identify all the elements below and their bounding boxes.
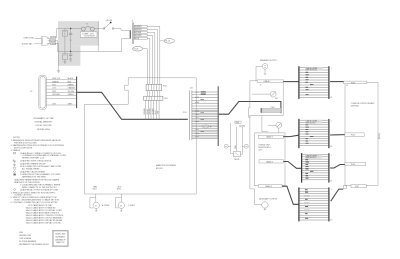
svg-text:ALL SIGNAL WIRES: ALL SIGNAL WIRES <box>22 168 40 171</box>
svg-text:BLUE: BLUE <box>155 110 157 114</box>
svg-text:GREEN: GREEN <box>68 94 75 96</box>
svg-text:REVISED 1984: REVISED 1984 <box>19 235 31 237</box>
svg-text:3. CABLES: 3. CABLES <box>11 149 21 152</box>
svg-text:B102: B102 <box>117 189 121 191</box>
svg-text:SLOW BLOW: SLOW BLOW <box>84 36 95 38</box>
svg-text:1: 1 <box>331 68 332 70</box>
svg-text:115/230 VAC: 115/230 VAC <box>22 43 34 46</box>
svg-text:BRN/WH: BRN/WH <box>144 108 146 114</box>
svg-text:(SEE NOTE 2): (SEE NOTE 2) <box>306 70 318 72</box>
svg-text:BROWN: BROWN <box>135 32 142 34</box>
svg-text:P104: P104 <box>351 82 355 84</box>
svg-text:BLU/WH: BLU/WH <box>152 108 154 114</box>
svg-text:INT: INT <box>275 98 278 100</box>
svg-text:(DISPLAY): (DISPLAY) <box>351 104 360 107</box>
svg-text:ORANGE: ORANGE <box>68 87 76 90</box>
svg-text:J2: J2 <box>346 85 348 87</box>
svg-text:BRN/YE: BRN/YE <box>147 109 149 115</box>
svg-text:GRN: GRN <box>158 111 160 114</box>
svg-text:LINE CORD: LINE CORD <box>24 38 35 40</box>
svg-text:CRT: CRT <box>259 149 262 151</box>
svg-text:J1: J1 <box>132 21 134 23</box>
svg-text:RESPECTIVE PART 1-14: RESPECTIVE PART 1-14 <box>22 157 44 160</box>
svg-text:BLACK: BLACK <box>68 77 74 80</box>
svg-text:F1: F1 <box>86 23 88 25</box>
svg-text:P1-05: P1-05 <box>134 49 139 51</box>
svg-text:P106: P106 <box>351 164 355 166</box>
svg-text:1-P1 CABLE ASSY PS ONE: 1-P1 CABLE ASSY PS ONE <box>28 204 53 207</box>
svg-text:SCHEMATIC OF THE: SCHEMATIC OF THE <box>33 117 54 120</box>
svg-text:B101: B101 <box>93 189 97 191</box>
svg-text:4804: 4804 <box>19 232 23 234</box>
svg-text:CABLE 4: CABLE 4 <box>265 185 272 188</box>
svg-text:SHEET 1/1: SHEET 1/1 <box>56 242 64 244</box>
svg-text:CABLE 3: CABLE 3 <box>266 160 273 163</box>
svg-text:BD-1220: BD-1220 <box>156 168 163 170</box>
svg-text:P105: P105 <box>351 135 355 137</box>
svg-text:GROUND: GROUND <box>52 94 60 96</box>
svg-text:BRN/YEL: BRN/YEL <box>135 29 142 31</box>
svg-text:MODEL 4804: MODEL 4804 <box>55 233 65 235</box>
svg-text:P103: P103 <box>183 112 187 114</box>
svg-text:J104: J104 <box>235 122 239 124</box>
svg-text:MAIN CIRCUIT BOARD: MAIN CIRCUIT BOARD <box>156 164 177 167</box>
svg-text:1: 1 <box>331 121 332 123</box>
svg-text:P107: P107 <box>355 186 359 188</box>
svg-text:P2: P2 <box>30 91 32 93</box>
svg-text:BLU/WH: BLU/WH <box>135 35 142 37</box>
svg-text:1: 1 <box>331 155 332 157</box>
svg-text:P101: P101 <box>163 85 167 87</box>
svg-text:15: 15 <box>330 220 332 222</box>
svg-text:14: 14 <box>330 97 332 99</box>
svg-text:CABLE 2: CABLE 2 <box>266 136 273 139</box>
svg-text:BROWN: BROWN <box>150 109 152 115</box>
svg-text:(NOTE): (NOTE) <box>379 133 381 139</box>
svg-text:REDRAWN BY THE VINTAGE GROUP: REDRAWN BY THE VINTAGE GROUP <box>19 243 49 246</box>
svg-text:TB-101: TB-101 <box>234 159 240 161</box>
svg-text:THIS SCHEMA: THIS SCHEMA <box>19 237 31 240</box>
svg-text:J103: J103 <box>190 88 193 90</box>
svg-text:P1-06: P1-06 <box>165 41 170 43</box>
svg-text:MODEL 4804: MODEL 4804 <box>37 129 50 131</box>
svg-text:P. SHIFT: P. SHIFT <box>128 205 135 207</box>
svg-text:WHITE: WHITE <box>51 40 56 42</box>
svg-text:GREEN: GREEN <box>51 43 56 45</box>
svg-text:1: 1 <box>331 189 332 191</box>
svg-text:AUXILIARY OUTPUT: AUXILIARY OUTPUT <box>259 197 278 200</box>
svg-text:BY STEVE BERANEK: BY STEVE BERANEK <box>19 240 37 243</box>
svg-text:(SEE NOTE): (SEE NOTE) <box>306 157 316 159</box>
svg-text:A. DRIVE: A. DRIVE <box>102 204 110 207</box>
svg-text:(SEE NOTE): (SEE NOTE) <box>306 122 316 124</box>
svg-text:QUALIFIED SUPPLY REQD DEVICE: QUALIFIED SUPPLY REQD DEVICE <box>20 160 52 163</box>
svg-text:DATA IN: DATA IN <box>52 80 59 83</box>
svg-text:QUALIFIED ALL POINT VOLTAGE AT: QUALIFIED ALL POINT VOLTAGE AT CONN <box>20 188 59 191</box>
svg-text:SCHEMATIC: SCHEMATIC <box>55 236 66 239</box>
svg-text:BRN/WH: BRN/WH <box>135 26 143 28</box>
svg-text:XMIT OUT: XMIT OUT <box>52 78 60 80</box>
svg-text:QUALIFIED SPARES GROUP: QUALIFIED SPARES GROUP <box>20 162 46 165</box>
svg-text:DIAGRAM OF: DIAGRAM OF <box>55 238 66 241</box>
svg-text:GREEN: GREEN <box>68 85 75 87</box>
svg-text:13: 13 <box>330 180 332 182</box>
svg-text:REFERENCE IN THE WIRE: REFERENCE IN THE WIRE <box>22 177 47 179</box>
svg-text:NOTES: NOTES <box>13 137 20 139</box>
svg-text:CABLE 1: CABLE 1 <box>264 80 271 83</box>
svg-text:OSCILLOSCOPE: OSCILLOSCOPE <box>35 125 52 127</box>
svg-text:GA-1/7 CABLE ASSY DISPLAY CTRL: GA-1/7 CABLE ASSY DISPLAY CTRL BD <box>26 221 62 224</box>
svg-text:J7: J7 <box>260 85 262 87</box>
svg-text:6. CONTRACT CONNECTED (A) TO: 6. CONTRACT CONNECTED (A) TO FOLLOW NOTE… <box>11 201 58 204</box>
svg-text:DIGITAL MEMORY: DIGITAL MEMORY <box>35 121 53 124</box>
svg-text:SPEAKER OUTPUT: SPEAKER OUTPUT <box>260 59 278 62</box>
svg-text:13: 13 <box>330 146 332 148</box>
svg-text:QUALIFIED CALLED BOARD: QUALIFIED CALLED BOARD <box>20 170 46 173</box>
svg-text:YEL/WH: YEL/WH <box>68 91 75 93</box>
svg-text:J101: J101 <box>164 98 168 100</box>
